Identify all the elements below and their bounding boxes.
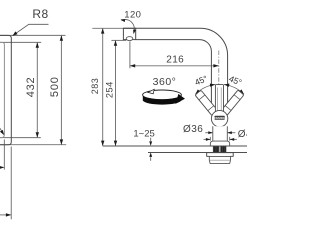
- svg-text:1~25: 1~25: [133, 128, 154, 139]
- svg-text:216: 216: [166, 55, 184, 66]
- svg-text:R8: R8: [32, 7, 48, 21]
- svg-text:360°: 360°: [153, 76, 177, 88]
- svg-text:254: 254: [105, 81, 115, 98]
- svg-text:432: 432: [25, 77, 37, 98]
- svg-text:Ø47: Ø47: [238, 129, 247, 140]
- svg-text:FRANKE: FRANKE: [214, 116, 225, 120]
- svg-text:500: 500: [49, 76, 61, 97]
- svg-text:120: 120: [124, 9, 141, 20]
- svg-text:283: 283: [90, 78, 100, 95]
- svg-text:Ø36: Ø36: [183, 124, 203, 135]
